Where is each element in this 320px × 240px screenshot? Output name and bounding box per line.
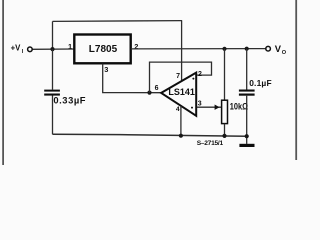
svg-text:10kΩ: 10kΩ <box>230 102 249 112</box>
left page border <box>2 0 4 165</box>
svg-text:0.1µF: 0.1µF <box>249 78 272 88</box>
node: pin 4 ground junction <box>179 134 183 138</box>
svg-text:7: 7 <box>176 73 180 80</box>
inverting input mark <box>192 78 194 80</box>
svg-text:3: 3 <box>104 65 108 74</box>
svg-text:+V: +V <box>11 44 22 53</box>
op-amp U2 LS141 body <box>161 73 196 116</box>
wire: pin 4 to ground rail <box>180 106 182 136</box>
wire: feedback from output node to pin 2 <box>150 62 212 93</box>
wire: pin 3 to potentiometer wiper <box>197 106 221 108</box>
wire: top rail from input junction to pin7 drop <box>53 20 183 23</box>
svg-text:3: 3 <box>198 101 202 108</box>
svg-text:2: 2 <box>134 42 138 51</box>
wire: C1 bottom to ground rail <box>52 95 54 134</box>
svg-text:O: O <box>282 50 287 56</box>
svg-text:S–2715/1: S–2715/1 <box>197 140 224 147</box>
svg-text:0.33µF: 0.33µF <box>53 95 86 106</box>
wire: C2 bottom to ground <box>246 96 248 144</box>
svg-text:2: 2 <box>198 71 202 78</box>
capacitor C1 0.33uF plates <box>44 90 60 92</box>
wire: output junction down to R1 <box>224 49 226 100</box>
wire: R1 bottom to ground rail <box>224 124 226 136</box>
wire: input junction down to C1 <box>52 49 54 90</box>
terminal +Vi <box>28 47 33 52</box>
wire: pin 7 supply drop from top rail to op-amp <box>181 21 183 81</box>
wire: ground rail <box>53 134 247 136</box>
wire: regulator pin 3 to op-amp output node <box>103 64 162 93</box>
svg-text:L7805: L7805 <box>89 44 118 55</box>
wire: left vertical from top rail to input line <box>52 21 54 49</box>
wire: input line from +Vi terminal to pin 1 <box>32 48 74 50</box>
node: input junction <box>50 47 54 51</box>
non-inverting input mark <box>191 107 193 109</box>
wire: output line from pin 2 to Vo terminal <box>131 48 266 50</box>
svg-text:4: 4 <box>176 106 180 113</box>
resistor R1 10k body <box>222 100 228 123</box>
svg-text:V: V <box>275 43 282 54</box>
svg-text:1: 1 <box>68 42 72 51</box>
node: R1 ground junction <box>222 134 226 138</box>
wire: C2 drop from output junction <box>246 49 248 90</box>
ground symbol <box>239 144 254 147</box>
node: output junction at divider <box>222 47 226 51</box>
svg-text:LS141: LS141 <box>168 87 195 97</box>
node: output junction at C2 <box>245 47 249 51</box>
svg-text:6: 6 <box>155 85 159 92</box>
terminal Vo <box>266 46 271 51</box>
right page border <box>295 0 297 160</box>
node: C2 ground junction <box>245 134 249 138</box>
regulator U1 L7805 body <box>74 35 130 64</box>
node: op-amp output junction <box>147 91 151 95</box>
capacitor C2 0.1uF plates <box>239 90 255 92</box>
wiper arrow <box>215 105 220 110</box>
